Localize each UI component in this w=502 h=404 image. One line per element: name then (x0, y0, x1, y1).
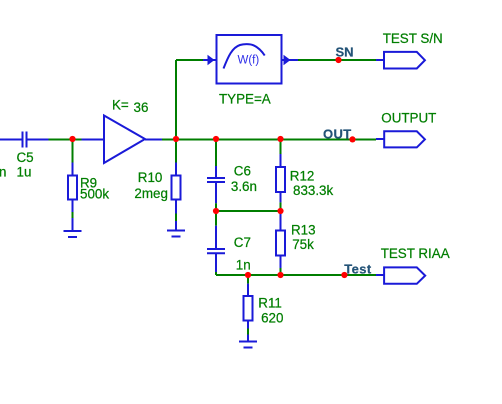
node OUT label (323, 126, 352, 141)
wire bottom horizontal (216, 274, 376, 276)
label C6 (234, 164, 251, 179)
wire main horizontal left of C5 (0, 139, 22, 141)
op-amp U1 input lead (82, 139, 105, 141)
node F junction dot (mid right) (277, 208, 283, 214)
svg-text:3.6n: 3.6n (231, 179, 257, 194)
label n (cut off at left edge) (0, 164, 6, 179)
label TYPE=A (219, 92, 271, 107)
ground below R10 (167, 231, 185, 237)
node SN label (336, 45, 354, 60)
capacitor C7 (207, 211, 225, 275)
label R13 (291, 223, 316, 238)
svg-text:36: 36 (134, 100, 149, 115)
resistor R13 (276, 211, 285, 275)
tag TEST S/N pentagon (376, 52, 425, 69)
node H junction dot (R13 bottom) (277, 272, 283, 278)
label R10 (138, 170, 163, 185)
svg-text:Test: Test (344, 262, 372, 277)
resistor R11 (244, 275, 253, 342)
label TEST RIAA (381, 246, 450, 261)
svg-text:R13: R13 (291, 223, 316, 238)
capacitor C5 (23, 132, 49, 148)
svg-text:R10: R10 (138, 170, 163, 185)
svg-text:500k: 500k (80, 187, 109, 202)
node E junction dot (mid left) (213, 208, 219, 214)
svg-text:833.3k: 833.3k (293, 183, 334, 198)
wire W(f) output to tag (298, 59, 376, 61)
svg-text:2meg: 2meg (134, 186, 168, 201)
svg-text:W(f): W(f) (238, 55, 260, 67)
node SN junction dot (335, 57, 341, 63)
node A junction dot (69, 136, 75, 142)
op-amp U1 output lead (145, 139, 162, 141)
filter block U2 W(f) box (217, 35, 282, 84)
node G junction dot (R11 top) (245, 272, 251, 278)
label C7 (234, 235, 251, 250)
svg-text:75k: 75k (292, 237, 314, 252)
svg-text:TYPE=A: TYPE=A (219, 92, 271, 107)
wire C5 to node A (49, 139, 82, 141)
label 3.6n (231, 179, 257, 194)
node Test label (344, 262, 372, 277)
wire to W(f) input (176, 59, 203, 61)
svg-text:OUTPUT: OUTPUT (381, 111, 436, 126)
svg-text:1u: 1u (17, 164, 32, 179)
resistor R10 (172, 139, 181, 231)
label 620 (261, 311, 283, 326)
label 2meg (134, 186, 168, 201)
ground below R9 (64, 231, 82, 237)
label 833.3k (293, 183, 334, 198)
svg-text:OUT: OUT (323, 126, 352, 141)
node Test junction dot (341, 272, 347, 278)
node OUT junction dot (349, 136, 355, 142)
label K= 36 (112, 98, 148, 115)
tag OUTPUT pentagon (376, 131, 425, 147)
label OUTPUT (381, 111, 436, 126)
label R11 (258, 296, 282, 311)
label TEST S/N (383, 31, 443, 46)
svg-text:R11: R11 (258, 296, 282, 311)
node D junction dot (R12 top) (277, 136, 283, 142)
svg-text:C6: C6 (234, 164, 251, 179)
wire mid horizontal (216, 210, 281, 212)
svg-text:K=: K= (112, 98, 129, 113)
svg-text:TEST RIAA: TEST RIAA (381, 246, 450, 261)
node B junction dot (amp output) (173, 136, 179, 142)
filter block U2 output lead and arrow (282, 55, 299, 65)
label 500k (80, 187, 109, 202)
wire branch up to W(f) (175, 60, 177, 139)
op-amp U1 amplifier triangle (104, 116, 145, 164)
resistor R12 (276, 139, 285, 211)
ground below R11 (239, 342, 257, 348)
svg-text:TEST S/N: TEST S/N (383, 31, 443, 46)
resistor R9 (68, 139, 77, 231)
label 1u (17, 164, 32, 179)
tag TEST RIAA pentagon (376, 267, 425, 283)
label R9 (80, 176, 97, 191)
wire main horizontal output run (162, 139, 376, 141)
svg-text:1n: 1n (236, 257, 251, 272)
label R12 (290, 168, 315, 183)
svg-text:C5: C5 (17, 150, 34, 165)
svg-text:620: 620 (261, 311, 283, 326)
label C5 (17, 150, 34, 165)
svg-text:n: n (0, 164, 6, 179)
node C junction dot (C6 top) (213, 136, 219, 142)
capacitor C6 (207, 139, 225, 211)
svg-text:C7: C7 (234, 235, 251, 250)
filter block U2 input lead and arrow (203, 55, 217, 65)
label 1n (236, 257, 251, 272)
label 75k (292, 237, 314, 252)
svg-text:R12: R12 (290, 168, 315, 183)
